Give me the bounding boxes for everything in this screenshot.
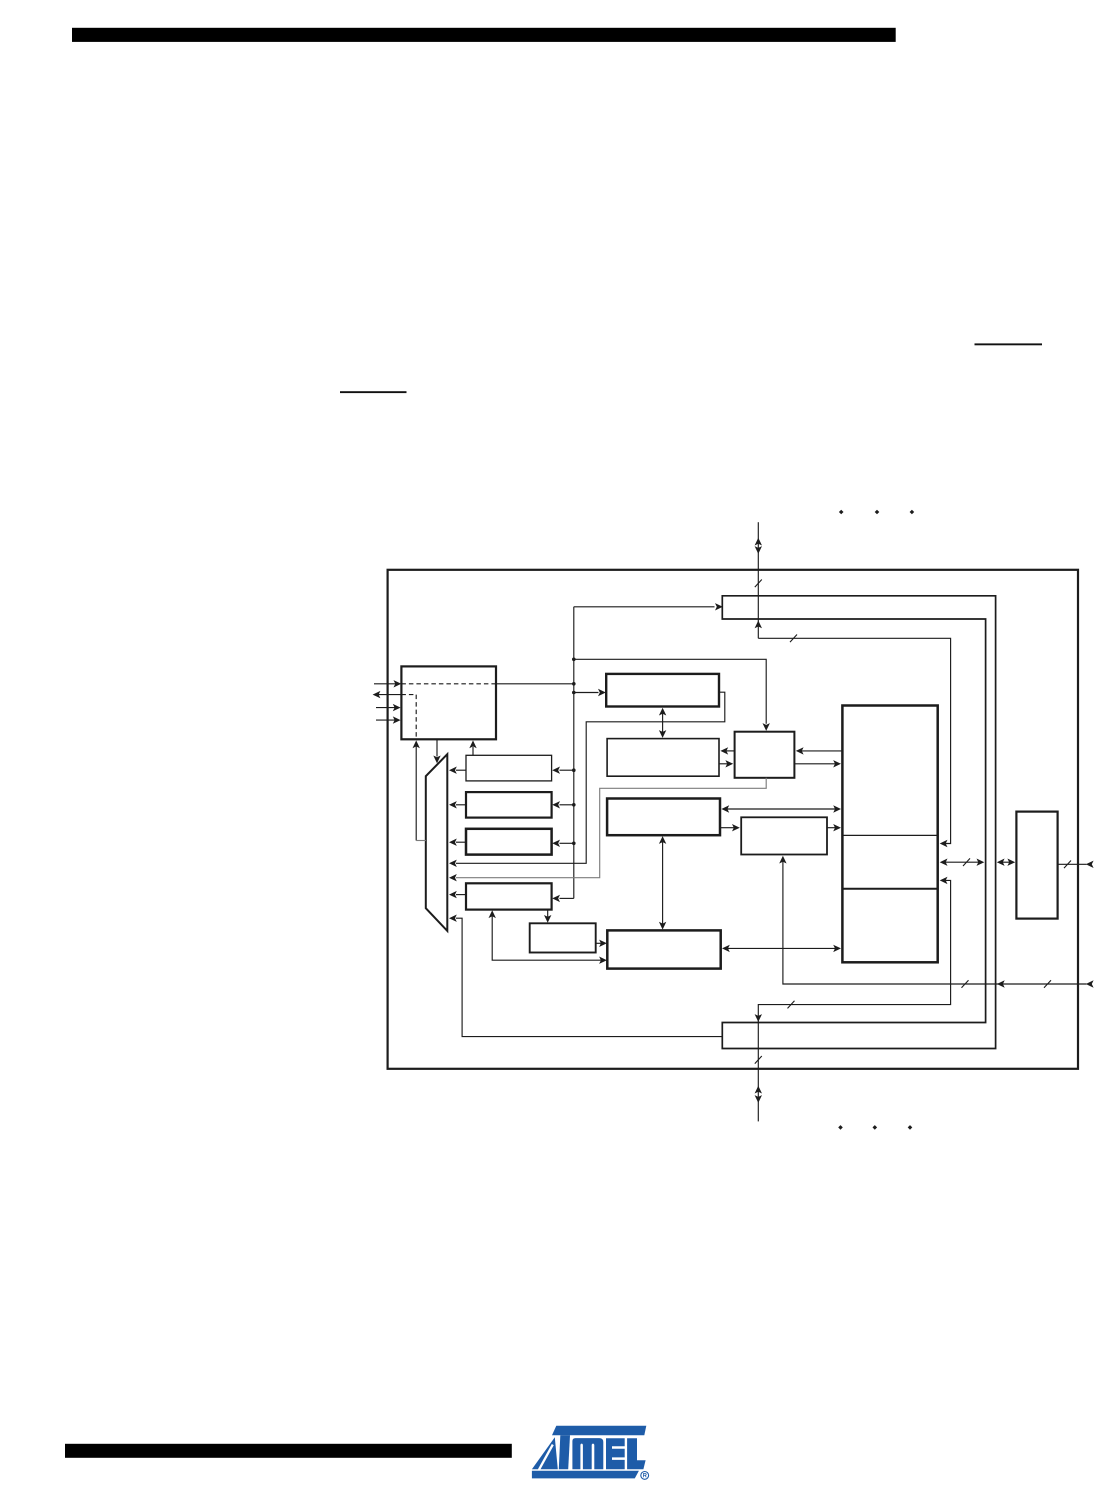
- arrow bus-U8 right: [1007, 859, 1015, 866]
- arrow spine into U4 top: [763, 723, 770, 731]
- arrow U4 into U3: [720, 747, 728, 754]
- wire RA to ALU: [456, 769, 466, 771]
- arrow spine into RD: [552, 895, 560, 902]
- wire pin XTAL2 into U1: [376, 707, 399, 709]
- logo letter L: [627, 1438, 646, 1469]
- slash wire into bottom bus: [788, 1001, 795, 1009]
- arrow stub top down: [755, 546, 762, 554]
- arrow U5-U7 left: [721, 805, 729, 812]
- wire U4 to U7: [794, 763, 835, 765]
- logo bottom bar: [532, 1471, 639, 1479]
- arrow RD into U10: [544, 915, 551, 923]
- arrow external into bottom rail: [1086, 980, 1094, 987]
- wire spine branch to U2: [574, 692, 599, 694]
- gray wire U4 bottom to ALU: [456, 778, 766, 878]
- block diagram outer border: [388, 570, 1078, 1069]
- instruction decoder block U4: [735, 732, 795, 778]
- arrow spine into data bus: [715, 603, 723, 610]
- slash bottom rail right: [1044, 980, 1051, 988]
- Atmel logo: [532, 1426, 646, 1479]
- instruction register block U3: [607, 739, 719, 777]
- wire U7 to U4: [802, 750, 843, 752]
- wire U1 bottom to ALU top: [436, 739, 438, 756]
- arrow RC into ALU: [449, 839, 457, 846]
- footer rule bar: [65, 1444, 512, 1458]
- arrow into bus bottom edge up: [755, 621, 762, 629]
- arrow bus-U8 left: [997, 859, 1005, 866]
- arrow U1 into ALU top: [433, 756, 440, 764]
- arrow U6 into U7: [833, 824, 841, 831]
- wire RB to ALU: [456, 804, 466, 806]
- arrow U7-bus left: [940, 859, 948, 866]
- arrow bottom rail into bus vertical: [997, 980, 1005, 987]
- dashed internal clock line short horizontal: [401, 694, 416, 696]
- wire spine branch to RC: [560, 842, 574, 844]
- arrow into U1 pin3: [393, 704, 401, 711]
- gray wire ALU left stub: [416, 840, 426, 842]
- wire ALU lower output to bottom bus: [456, 918, 722, 1036]
- arrow spine into U2: [598, 689, 606, 696]
- wire U7 to data bus double arrow: [946, 861, 979, 863]
- wire spine branch to RA: [560, 769, 574, 771]
- arrow RA wire into U1 bottom: [469, 740, 476, 748]
- control register block RC: [466, 829, 552, 855]
- wire spine to data bus: [574, 606, 715, 608]
- arrow bus wire into U7 right upper: [940, 840, 948, 847]
- arrow U5-U11 up: [659, 836, 666, 844]
- arrow U7 into U4: [796, 747, 804, 754]
- arrow bottom wire into ALU: [449, 915, 457, 922]
- arrow stub bottom up: [755, 1086, 762, 1094]
- wire RC to ALU: [456, 841, 466, 843]
- general purpose register file block U7 (three sections): [842, 706, 937, 963]
- stack pointer block U6: [741, 817, 827, 854]
- junction dots on spine: [572, 658, 576, 846]
- wire U6 to U7: [827, 827, 836, 829]
- wire U5 to U11 double arrow vertical: [662, 841, 664, 924]
- wire bus feed to U7 right upper: [758, 638, 950, 843]
- port dots top (ellipsis): [839, 510, 914, 515]
- register file divider Y: [842, 888, 937, 890]
- arrow spine into RC: [552, 840, 560, 847]
- arrow stub bottom down: [755, 1095, 762, 1103]
- header rule bar: [72, 28, 896, 42]
- logo letter T stem: [559, 1435, 570, 1469]
- wire U10 to U11: [596, 942, 602, 944]
- logo registered mark: [641, 1472, 649, 1480]
- arrow U11-U7 left: [722, 945, 730, 952]
- wire U3 to U4: [719, 763, 728, 765]
- logo letter E: [606, 1438, 625, 1469]
- wire U6 bottom rail to right edge: [783, 861, 1087, 985]
- program counter block U5: [607, 799, 720, 836]
- wire U7 right lower to bottom bus: [758, 880, 950, 1048]
- arrow U4 into U7: [833, 760, 841, 767]
- arrow U2-U3 down: [659, 730, 666, 738]
- slash U7-bus: [963, 858, 970, 866]
- data SRAM block U8: [1016, 812, 1057, 919]
- arrowheads: [373, 538, 1094, 1103]
- port dots bottom (ellipsis): [838, 1125, 912, 1130]
- wire ALU result vertical to U1: [415, 746, 417, 841]
- arrow ALU wire into U1 bottom: [413, 740, 420, 748]
- arrow out of U1 pin2: [373, 691, 381, 698]
- logo top bar: [552, 1426, 646, 1436]
- wire U2 feedback loop to ALU: [456, 692, 725, 863]
- wire pin XTAL1 into U1: [374, 683, 400, 685]
- wire RA top to U1 bottom: [472, 747, 474, 756]
- status register block RA: [466, 755, 552, 781]
- logo letter M: [572, 1438, 603, 1469]
- slash U8 external: [1064, 861, 1071, 869]
- wire RD bottom to U11: [492, 916, 601, 961]
- arrow RB into ALU: [449, 801, 457, 808]
- arrow gray wire into ALU: [449, 874, 457, 881]
- wire U5 to U6: [720, 827, 734, 829]
- wire spine branch to RD: [560, 897, 574, 899]
- ALU trapezoid U9: [426, 754, 448, 931]
- arrow RA into ALU: [449, 767, 457, 774]
- wire spine branch to RB: [560, 804, 574, 806]
- wire RD to ALU: [456, 894, 466, 896]
- wire spine branch to U4 top: [574, 659, 766, 724]
- data register block U11: [607, 930, 720, 968]
- arrow into U1 pin1: [394, 680, 402, 687]
- wire control spine vertical: [573, 607, 575, 899]
- wire pin CLKO out of U1: [375, 694, 402, 696]
- wire U4 to U3: [727, 750, 735, 752]
- wire external pin stub top: [757, 522, 759, 638]
- arrow up into U6 bottom: [779, 856, 786, 864]
- oscillator / timing and control block U1: [401, 666, 496, 739]
- logo letter A: [532, 1437, 558, 1469]
- arrow RD into ALU: [449, 891, 457, 898]
- arrow feedback into ALU: [449, 860, 457, 867]
- arrow spine into RB: [552, 801, 560, 808]
- arrow U2-U3 up: [659, 708, 666, 716]
- arrow bus wire into U7 right lower: [940, 877, 948, 884]
- arrow external into U8 wire: [1086, 861, 1094, 868]
- overline (signal name) right: [975, 343, 1043, 345]
- arrow U5-U7 right: [833, 805, 841, 812]
- arrow wire into RD bottom: [489, 910, 496, 918]
- dashed internal clock line horizontal: [401, 683, 496, 685]
- arrow into U1 pin4: [393, 716, 401, 723]
- timer block U10: [530, 923, 596, 952]
- arrow U5 into U6: [732, 824, 740, 831]
- wire data bus to U8 double arrow: [1003, 861, 1010, 863]
- bus width slashes: [755, 580, 1071, 1064]
- register file divider X: [842, 834, 937, 836]
- wire RD to U10: [547, 910, 549, 918]
- arrow U11-U7 right: [833, 945, 841, 952]
- wire external pin stub bottom: [757, 1049, 759, 1122]
- wire U11 to U7 double arrow: [728, 947, 836, 949]
- arrow stub top up: [755, 538, 762, 546]
- flash program memory block U2: [606, 674, 719, 707]
- arrow U7-bus right: [977, 859, 985, 866]
- slash wire to U7 upper: [790, 635, 797, 643]
- slash stub bottom: [755, 1056, 762, 1064]
- wire U2 to U3 double arrow: [662, 713, 664, 733]
- arrow into bottom bus top edge down: [755, 1014, 762, 1022]
- arrow wire into U11 left lower: [599, 957, 607, 964]
- arrow U10 into U11: [599, 940, 607, 947]
- arrow U3 into U4: [725, 760, 733, 767]
- arrow spine into RA: [552, 767, 560, 774]
- slash stub top: [755, 580, 762, 588]
- wire U5 to U7 double arrow: [727, 808, 836, 810]
- white slit in logo letter A: [539, 1445, 553, 1470]
- wire pin RESET into U1: [376, 719, 399, 721]
- data bus ring (top bus bar + bottom bus bar joined on right): [722, 596, 995, 1049]
- dashed internal clock line vertical: [415, 695, 417, 740]
- arrow U5-U11 down: [659, 922, 666, 930]
- overline (signal name) left: [340, 391, 407, 393]
- stack register block RB: [466, 792, 552, 818]
- wire U8 to external right: [1058, 863, 1087, 865]
- wire U1 clock output to spine: [496, 683, 574, 685]
- control register block RD: [466, 883, 552, 909]
- slash bottom rail left: [962, 980, 969, 988]
